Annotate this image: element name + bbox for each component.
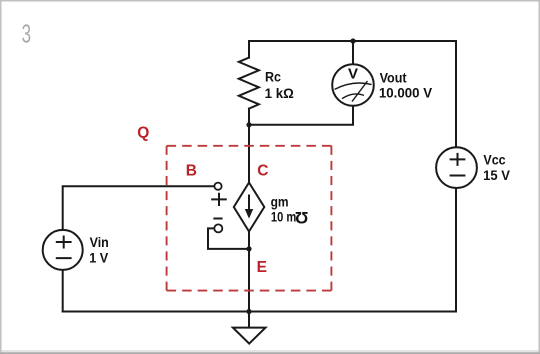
wire emitter terminal connection (to junction below diamond): [208, 228, 247, 249]
svg-text:C: C: [257, 163, 268, 180]
svg-text:Vcc: Vcc: [483, 153, 506, 168]
voltmeter U1 (Vout) body: [332, 64, 374, 106]
node junction bottom rail: [246, 309, 251, 314]
svg-text:1 kΩ: 1 kΩ: [265, 86, 294, 101]
wire emitter: diamond bottom to bottom rail: [248, 232, 250, 312]
dependent current source G1 (gm) diamond: [234, 183, 264, 232]
svg-text:1 V: 1 V: [89, 251, 108, 266]
svg-text:15 V: 15 V: [483, 168, 510, 183]
wire voltmeter bottom lead to node below Rc: [249, 105, 353, 124]
wire resistor bottom lead to node below Rc: [248, 109, 250, 125]
label Rc value: [265, 69, 294, 101]
label Vcc value: [483, 153, 510, 183]
svg-text:10 m: 10 m: [271, 209, 296, 224]
transistor Q1 boundary (dashed box): [167, 146, 332, 291]
label Vout value: [379, 71, 432, 101]
svg-text:gm: gm: [271, 194, 289, 209]
node junction below diamond (E): [246, 246, 251, 251]
wire ground lead: [248, 312, 250, 328]
wire left branch upper (Vin to base terminal B): [63, 186, 215, 230]
ground: [233, 328, 266, 344]
wire right branch upper (top rail to Vcc): [455, 41, 457, 147]
svg-text:3: 3: [22, 19, 31, 49]
wire top rail from Rc top to right branch: [249, 40, 456, 42]
polarity minus: [213, 218, 222, 220]
node junction below Rc: [246, 122, 251, 127]
voltage source V2 (Vcc) body: [436, 147, 477, 188]
svg-text:Rc: Rc: [265, 69, 281, 84]
wire resistor top lead: [248, 41, 250, 58]
wire voltmeter top lead: [352, 41, 354, 65]
label Vin value: [89, 235, 109, 265]
wire collector: node to diamond top (node C): [248, 125, 250, 183]
wire right branch lower (Vcc to bottom rail): [455, 188, 457, 312]
pin terminal B (open circle): [214, 183, 221, 190]
voltage source V1 (Vin) body: [43, 230, 83, 270]
svg-text:Vout: Vout: [380, 71, 407, 86]
svg-text:Q: Q: [137, 125, 149, 142]
svg-text:Vin: Vin: [90, 235, 109, 250]
svg-text:B: B: [186, 162, 197, 179]
resistor R1 (Rc) zigzag body: [239, 58, 259, 109]
polarity plus: [211, 193, 227, 206]
svg-text:V: V: [348, 65, 358, 82]
svg-text:10.000 V: 10.000 V: [379, 85, 432, 100]
svg-text:E: E: [257, 259, 267, 276]
wire left branch lower (bottom rail to Vin): [62, 270, 64, 312]
pin terminal E- (open circle): [214, 224, 222, 232]
svg-text:Ω: Ω: [295, 208, 308, 226]
wire bottom rail: [63, 311, 456, 313]
label gm value: [271, 194, 309, 226]
node junction top rail: [350, 38, 355, 43]
